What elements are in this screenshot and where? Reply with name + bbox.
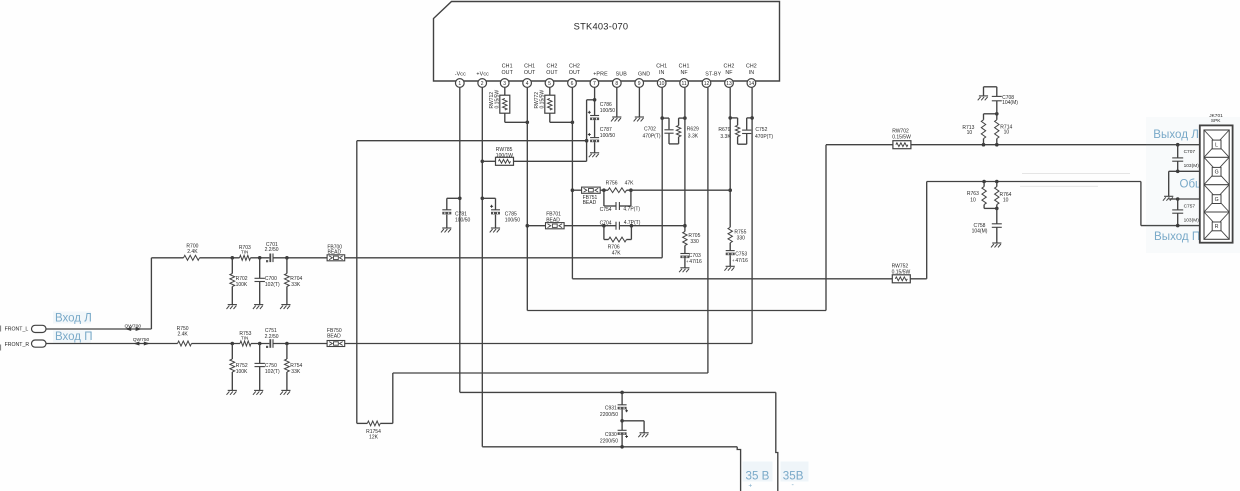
- svg-text:1: 1: [458, 81, 461, 87]
- IC U701 STK403-070 body: [434, 2, 780, 82]
- wire R756 to pin13: [627, 189, 731, 191]
- capacitor C787: [588, 127, 616, 142]
- node pin13 feedback junction: [728, 188, 732, 192]
- svg-text:35В: 35В: [783, 469, 804, 482]
- ghost line artifact lower: [1020, 185, 1098, 187]
- wire C786-C787: [594, 120, 596, 138]
- IC pin 2: [476, 71, 489, 87]
- svg-text:TIN: TIN: [241, 335, 248, 340]
- wire FRONT_R to R750: [46, 343, 178, 345]
- node pin6/FB751 junction: [571, 188, 575, 192]
- wire +Vcc drop to 35V: [737, 447, 740, 491]
- ground below C700: [253, 305, 263, 309]
- wire +Vcc bottom rail: [482, 446, 737, 448]
- wire pin10 vertical: [661, 88, 663, 258]
- resistor R756: [606, 181, 635, 193]
- ground below R702: [227, 305, 237, 309]
- ferrite bead FB750: [327, 328, 345, 347]
- node C707 bottom: [1176, 170, 1180, 174]
- node pin6 junction: [571, 121, 575, 125]
- node C930 bottom: [620, 445, 624, 449]
- resistor R679: [718, 125, 739, 140]
- svg-text:SUB: SUB: [616, 71, 628, 77]
- highlight tint right: [1146, 117, 1240, 253]
- wire FB701 to C704: [564, 225, 616, 227]
- svg-text:470P(T): 470P(T): [643, 134, 661, 140]
- wire C704 to pin11: [619, 225, 685, 227]
- capacitor C708: [984, 87, 1019, 114]
- resistor R703: [239, 245, 251, 260]
- wire R753 to C751: [251, 343, 269, 345]
- node C758 junction: [995, 207, 999, 211]
- wire L out to RW702: [826, 144, 893, 146]
- wire pin4 out bottom: [527, 310, 826, 312]
- capacitor C701: [265, 242, 279, 262]
- wire FB700 to pin10: [345, 257, 663, 259]
- svg-text:11: 11: [681, 81, 686, 87]
- svg-text:100/50: 100/50: [455, 217, 471, 223]
- svg-text:5: 5: [548, 81, 551, 87]
- IC pin 14: [746, 63, 757, 87]
- svg-text:CH2: CH2: [724, 63, 735, 69]
- svg-text:C931: C931: [605, 406, 617, 412]
- svg-text:2.2/50: 2.2/50: [265, 247, 279, 253]
- svg-text:STK403-070: STK403-070: [574, 22, 629, 32]
- resistor R752 shunt: [230, 344, 248, 391]
- svg-text:C704: C704: [600, 220, 612, 226]
- svg-text:C754: C754: [600, 207, 612, 213]
- node C757 bottom: [1176, 224, 1180, 228]
- svg-text:OUT: OUT: [546, 70, 558, 76]
- connector JK701 SPK: [1200, 113, 1233, 243]
- svg-text:104(M): 104(M): [972, 228, 988, 234]
- svg-text:100/1W: 100/1W: [496, 153, 514, 159]
- ground below R752: [227, 390, 237, 394]
- svg-text:100/50: 100/50: [505, 217, 521, 223]
- capacitor C781: [442, 210, 470, 224]
- label 35V minus blue: [781, 462, 809, 490]
- capacitor C754 loop: [600, 190, 641, 213]
- wire pin4 vertical: [526, 88, 528, 311]
- terminal FRONT_R: [32, 340, 47, 347]
- node R764 top: [995, 180, 999, 184]
- wire -Vcc drop to 35V: [776, 392, 778, 491]
- svg-text:IN: IN: [749, 70, 755, 76]
- node C757 top: [1176, 197, 1180, 201]
- wire L row to R700: [151, 257, 183, 259]
- svg-text:R706: R706: [608, 244, 620, 250]
- svg-text:GND: GND: [638, 71, 650, 77]
- svg-text:BEAD: BEAD: [583, 200, 597, 206]
- wire FB751 to R756: [600, 189, 608, 191]
- ferrite bead FB751: [582, 187, 601, 206]
- svg-text:Выход Л: Выход Л: [1153, 128, 1199, 141]
- label Vhod L blue: [53, 312, 92, 325]
- ground mid supply: [638, 433, 648, 437]
- node C707 top: [1176, 143, 1180, 147]
- svg-text:13: 13: [726, 81, 732, 87]
- wire pin5 vertical: [549, 88, 551, 96]
- wire pin9 vertical: [638, 88, 640, 117]
- svg-text:R629: R629: [687, 126, 699, 132]
- IC pin 4: [523, 63, 536, 87]
- svg-text:G: G: [1215, 197, 1219, 203]
- label Obsh blue: [1180, 179, 1206, 191]
- node pin7 branch: [587, 98, 597, 161]
- ground below C753: [724, 266, 734, 270]
- IC pin 7: [590, 71, 608, 87]
- left edge artifact: [0, 326, 2, 351]
- resistor R1754: [357, 141, 393, 441]
- IC pin 6: [568, 63, 581, 87]
- svg-text:100/50: 100/50: [600, 133, 616, 139]
- svg-text:SPK: SPK: [1211, 118, 1221, 124]
- capacitor C930: [600, 421, 628, 447]
- wire R700 to R703: [200, 257, 240, 259]
- resistor RW712: [489, 90, 510, 114]
- svg-text:NF: NF: [680, 70, 688, 76]
- wire common G1: [1169, 170, 1201, 172]
- svg-text:100K: 100K: [236, 369, 248, 375]
- ground pin9: [634, 117, 644, 121]
- wire RW772 to pin6: [550, 113, 573, 122]
- wire R629 branch: [679, 118, 685, 144]
- wire pin6 to FB751: [572, 189, 581, 191]
- svg-text:35 В: 35 В: [746, 469, 770, 482]
- capacitor C702: [643, 126, 674, 139]
- svg-text:3.3K: 3.3K: [688, 134, 699, 140]
- capacitor C757: [1172, 199, 1199, 226]
- svg-text:C757: C757: [1184, 204, 1196, 210]
- svg-text:FRONT_R: FRONT_R: [5, 342, 30, 348]
- svg-text:0.15/5W: 0.15/5W: [892, 135, 911, 141]
- jumper QW750: [133, 337, 150, 346]
- IC pin 12: [702, 71, 722, 87]
- svg-text:2.4K: 2.4K: [187, 249, 198, 255]
- wire pin3 vertical: [504, 88, 506, 96]
- svg-text:4.7P(T): 4.7P(T): [623, 207, 640, 213]
- svg-text:CH2: CH2: [746, 63, 757, 69]
- wire C781 branch: [447, 198, 460, 228]
- wire C753 to ground: [729, 255, 731, 266]
- node R702 junction: [231, 256, 235, 260]
- svg-text:Выход П: Выход П: [1154, 230, 1200, 243]
- label FRONT_R: [5, 342, 30, 348]
- svg-text:100/50: 100/50: [600, 108, 616, 114]
- svg-text:IN: IN: [659, 70, 665, 76]
- resistor RW772: [534, 90, 555, 114]
- svg-text:CH2: CH2: [569, 63, 580, 69]
- svg-text:CH1: CH1: [524, 63, 535, 69]
- resistor R713: [962, 120, 985, 145]
- wire common down: [1169, 171, 1178, 199]
- svg-text:470P(T): 470P(T): [755, 134, 773, 140]
- capacitor C704: [600, 220, 641, 230]
- node pin1/C781 junction: [458, 197, 462, 201]
- capacitor C703: [680, 253, 702, 265]
- wire R out to speaker R: [1141, 225, 1201, 227]
- svg-text:6: 6: [571, 81, 574, 87]
- node pin4 junction: [526, 121, 530, 125]
- node R704 junction: [285, 256, 289, 260]
- svg-text:47/16: 47/16: [689, 259, 702, 265]
- svg-text:10: 10: [659, 81, 665, 87]
- resistor R706 loop: [604, 226, 632, 257]
- capacitor C752: [742, 127, 773, 140]
- svg-text:12K: 12K: [369, 435, 379, 441]
- terminal FRONT_L: [32, 325, 47, 332]
- wire pin12 vertical: [707, 88, 709, 373]
- node pin2/C785 junction: [481, 197, 485, 201]
- label Vyhod P blue: [1154, 230, 1200, 243]
- ground below C785: [490, 228, 500, 232]
- svg-text:+: +: [748, 482, 752, 489]
- svg-text:R679: R679: [718, 127, 730, 133]
- svg-text:+PRE: +PRE: [593, 71, 608, 77]
- svg-text:JK701: JK701: [1209, 113, 1223, 119]
- node C700 junction: [258, 256, 262, 260]
- IC pin 13: [724, 63, 735, 87]
- node pin14 bracket: [750, 116, 754, 120]
- svg-text:C752: C752: [755, 127, 767, 133]
- ground below C750: [253, 390, 263, 394]
- svg-text:OUT: OUT: [501, 70, 513, 76]
- svg-text:G: G: [1215, 170, 1219, 176]
- svg-text:47/16: 47/16: [735, 258, 748, 264]
- IC pin 9: [635, 71, 650, 87]
- svg-text:8: 8: [615, 81, 618, 87]
- wire common G2: [1178, 198, 1201, 200]
- resistor RW752: [892, 264, 911, 283]
- svg-text:R756: R756: [606, 181, 618, 187]
- resistor R702 shunt: [230, 258, 248, 305]
- resistor R764: [995, 182, 1012, 209]
- svg-text:CH1: CH1: [679, 63, 690, 69]
- wire pin13 vertical: [729, 88, 731, 228]
- capacitor C707: [1172, 145, 1199, 172]
- resistor R754 shunt: [285, 344, 303, 391]
- ground below R704: [280, 305, 290, 309]
- wire FRONT_L to corner: [46, 258, 151, 329]
- IC pin 11: [679, 63, 690, 87]
- svg-text:Вход Л: Вход Л: [55, 313, 92, 325]
- resistor R750: [177, 326, 192, 346]
- wire C703 to ground: [684, 258, 686, 268]
- label Vyhod L blue: [1153, 128, 1199, 141]
- svg-text:14: 14: [749, 81, 755, 87]
- wire R755 to C753: [729, 243, 731, 251]
- svg-text:33K: 33K: [291, 282, 301, 288]
- svg-text:C930: C930: [605, 432, 617, 438]
- svg-text:CH1: CH1: [656, 63, 667, 69]
- svg-text:BEAD: BEAD: [327, 333, 341, 339]
- wire RW712 to pin4: [505, 113, 528, 122]
- wire C785 branch: [482, 198, 495, 228]
- svg-text:2.4K: 2.4K: [177, 332, 188, 338]
- node R714 bottom: [995, 143, 999, 147]
- node pin11 bracket: [683, 116, 687, 120]
- svg-text:2.2/50: 2.2/50: [265, 334, 279, 340]
- ground pin8: [611, 117, 621, 121]
- resistor R629: [676, 126, 699, 140]
- node R752 junction: [231, 342, 235, 346]
- svg-text:2: 2: [481, 81, 484, 87]
- label FRONT_L: [5, 326, 29, 332]
- wire L out riser: [825, 145, 827, 311]
- node C931/C930 mid: [620, 419, 624, 423]
- capacitor C700 shunt: [255, 258, 280, 305]
- svg-text:+Vcc: +Vcc: [476, 71, 489, 77]
- wire C751 to FB750: [273, 343, 327, 345]
- capacitor C931: [600, 392, 628, 420]
- capacitor C758: [972, 208, 1002, 243]
- resistor RW702: [892, 129, 911, 149]
- svg-text:0.15/5W: 0.15/5W: [494, 90, 500, 109]
- node C704 right: [630, 224, 634, 228]
- wire mid to ground: [622, 421, 644, 433]
- svg-text:10: 10: [1003, 198, 1009, 204]
- svg-text:2200/50: 2200/50: [600, 412, 618, 418]
- wire RW752 riser: [910, 182, 926, 279]
- node R754 junction: [285, 342, 289, 346]
- node R713 bottom: [982, 143, 986, 147]
- svg-text:FRONT_L: FRONT_L: [5, 326, 29, 332]
- svg-text:OUT: OUT: [524, 70, 536, 76]
- ground below C703: [679, 268, 689, 272]
- svg-text:4: 4: [526, 81, 529, 87]
- wire pin2 +Vcc vertical: [481, 88, 483, 447]
- node R756 right: [629, 188, 633, 192]
- svg-text:QW750: QW750: [133, 337, 150, 343]
- wire R679 branch: [730, 118, 747, 144]
- wire C702 branch: [662, 118, 678, 144]
- svg-text:10: 10: [1004, 129, 1010, 135]
- svg-text:47K: 47K: [612, 251, 622, 257]
- resistor R704 shunt: [285, 258, 303, 305]
- svg-text:0.15/5W: 0.15/5W: [539, 90, 545, 109]
- svg-text:47K: 47K: [625, 181, 635, 187]
- resistor R700: [184, 243, 200, 260]
- IC pin 10: [656, 63, 667, 87]
- wire -Vcc bottom rail: [460, 391, 776, 393]
- wire pin11 vertical: [684, 88, 686, 232]
- resistor R705: [683, 232, 701, 246]
- svg-text:2200/50: 2200/50: [600, 438, 618, 444]
- node pin2/RW785 junction: [481, 160, 485, 164]
- wire C701 to FB700: [273, 257, 327, 259]
- wire R out drop: [1140, 182, 1142, 226]
- ground below R754: [280, 390, 290, 394]
- wire pin7 vertical top: [594, 88, 596, 116]
- wire pin1 -Vcc vertical: [459, 88, 461, 393]
- wire pin14 vertical: [751, 88, 753, 344]
- resistor RW785: [482, 147, 586, 165]
- node C708 junction: [995, 112, 999, 116]
- wire R705 to C703: [684, 246, 686, 254]
- svg-text:ST-BY: ST-BY: [705, 71, 721, 77]
- svg-text:C702: C702: [644, 126, 656, 132]
- node pin4/FB701 junction: [526, 224, 530, 228]
- svg-text:C703: C703: [689, 253, 701, 259]
- wire +PRE long left: [357, 140, 587, 142]
- ferrite bead FB700: [327, 245, 345, 261]
- wire pin4 to FB701: [527, 225, 545, 227]
- ground below C758: [991, 243, 1001, 247]
- wire R out top: [927, 181, 1141, 183]
- svg-text:R763: R763: [967, 191, 979, 197]
- svg-text:103(M): 103(M): [1184, 163, 1200, 169]
- svg-text:BEAD: BEAD: [327, 250, 341, 256]
- capacitor C785: [490, 205, 520, 224]
- svg-text:7: 7: [593, 81, 596, 87]
- svg-text:L: L: [1215, 142, 1218, 148]
- svg-text:0.15/5W: 0.15/5W: [892, 269, 911, 275]
- wire RW702 to speaker L: [911, 144, 1201, 146]
- svg-text:3.3K: 3.3K: [720, 134, 731, 140]
- svg-text:3: 3: [503, 81, 506, 87]
- svg-text:103(M): 103(M): [1184, 218, 1200, 224]
- capacitor C753: [726, 251, 748, 264]
- node pin11 feedback junction: [683, 224, 687, 228]
- svg-text:33K: 33K: [291, 369, 301, 375]
- svg-text:10: 10: [970, 197, 976, 203]
- node R763 top: [982, 180, 986, 184]
- svg-text:102(T): 102(T): [265, 282, 280, 288]
- wire C787 to ground: [594, 142, 596, 153]
- svg-text:R: R: [1215, 224, 1219, 230]
- node pin10 bracket: [660, 116, 664, 120]
- ground below C708 loop: [978, 96, 988, 100]
- node R756 left: [602, 188, 606, 192]
- svg-text:330: 330: [690, 239, 699, 245]
- svg-text:9: 9: [638, 81, 641, 87]
- wire R750 to R753: [192, 343, 241, 345]
- svg-text:10: 10: [967, 130, 973, 136]
- wire R713/R714 tops: [984, 114, 997, 120]
- label Vhod P blue: [53, 331, 92, 344]
- wire C752 branch: [747, 118, 752, 144]
- label 35V plus blue: [743, 462, 773, 490]
- svg-text:100K: 100K: [236, 282, 248, 288]
- svg-text:BEAD: BEAD: [546, 217, 560, 223]
- node C750 junction: [258, 342, 262, 346]
- svg-text:-Vcc: -Vcc: [455, 71, 466, 77]
- resistor R763: [967, 182, 997, 209]
- wire R703 to C701: [251, 257, 270, 259]
- svg-text:NF: NF: [725, 70, 733, 76]
- capacitor C751: [265, 328, 279, 348]
- svg-text:TIN: TIN: [241, 250, 248, 255]
- svg-text:12: 12: [704, 81, 710, 87]
- ferrite bead FB701: [546, 211, 565, 229]
- wire ST-BY horizontal: [393, 372, 708, 374]
- wire pin6 out bottom: [572, 278, 892, 280]
- resistor R714: [995, 120, 1013, 145]
- ground common: [1163, 196, 1173, 200]
- svg-text:CH2: CH2: [547, 63, 558, 69]
- IC pin 3: [500, 63, 513, 87]
- resistor R753: [239, 331, 251, 346]
- node pin13 bracket: [728, 116, 732, 120]
- wire pin6 vertical: [571, 88, 573, 279]
- svg-text:CH1: CH1: [502, 63, 513, 69]
- capacitor C786: [588, 102, 616, 120]
- svg-text:102(T): 102(T): [265, 369, 280, 375]
- svg-text:OUT: OUT: [569, 70, 581, 76]
- svg-text:C753: C753: [735, 251, 747, 257]
- IC pin 1: [455, 71, 466, 87]
- node C931 top: [620, 391, 624, 395]
